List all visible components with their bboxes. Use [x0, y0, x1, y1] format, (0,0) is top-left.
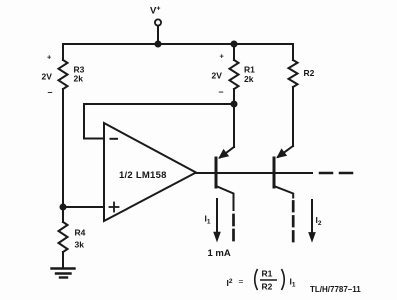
wire op-amp + input [63, 206, 104, 208]
wire top supply rail [63, 43, 293, 45]
op-amp U1 1/2 LM158 [104, 123, 196, 221]
resistor R1 [233, 44, 235, 60]
svg-text:1 mA: 1 mA [208, 248, 231, 259]
wire dashed base continuation [320, 172, 332, 175]
transistor Q2 [273, 158, 276, 187]
wire dashed collector Q2 [292, 202, 295, 244]
svg-text:3k: 3k [75, 240, 85, 250]
resistor R4 [62, 207, 64, 222]
wire feedback loop to - input [84, 104, 234, 139]
terminal V+ [155, 19, 161, 25]
svg-text:TL/H/7787–11: TL/H/7787–11 [310, 285, 361, 294]
svg-text:R2: R2 [262, 282, 273, 292]
svg-text:=: = [239, 276, 244, 286]
wire dashed collector Q1 [232, 215, 235, 242]
junction dot under V+ [155, 41, 162, 48]
svg-text:2k: 2k [244, 74, 254, 84]
resistor R3 [59, 60, 68, 89]
junction dot feedback / R1 bottom [231, 101, 238, 108]
junction dot R1 top [231, 41, 238, 48]
current arrow I2 [311, 200, 313, 234]
svg-text:2V: 2V [212, 71, 223, 81]
svg-text:2V: 2V [42, 72, 53, 82]
svg-text:–: – [219, 87, 224, 97]
svg-text:R1: R1 [244, 65, 255, 75]
svg-text:R1: R1 [262, 269, 273, 279]
svg-text:+: + [220, 52, 225, 61]
junction dot at + input / R4 [60, 204, 67, 211]
current arrow I1 [216, 199, 218, 234]
svg-text:2k: 2k [74, 74, 84, 84]
svg-text:R2: R2 [304, 68, 315, 78]
transistor Q1 [215, 158, 218, 187]
svg-text:–: – [48, 87, 53, 97]
wire base line from op-amp output [196, 172, 312, 174]
svg-text:+: + [47, 53, 52, 62]
svg-text:1/2 LM158: 1/2 LM158 [119, 170, 167, 181]
svg-text:R4: R4 [75, 228, 86, 238]
wire left vertical branch [62, 44, 64, 60]
resistor R2 [292, 44, 294, 60]
ground [52, 267, 75, 269]
